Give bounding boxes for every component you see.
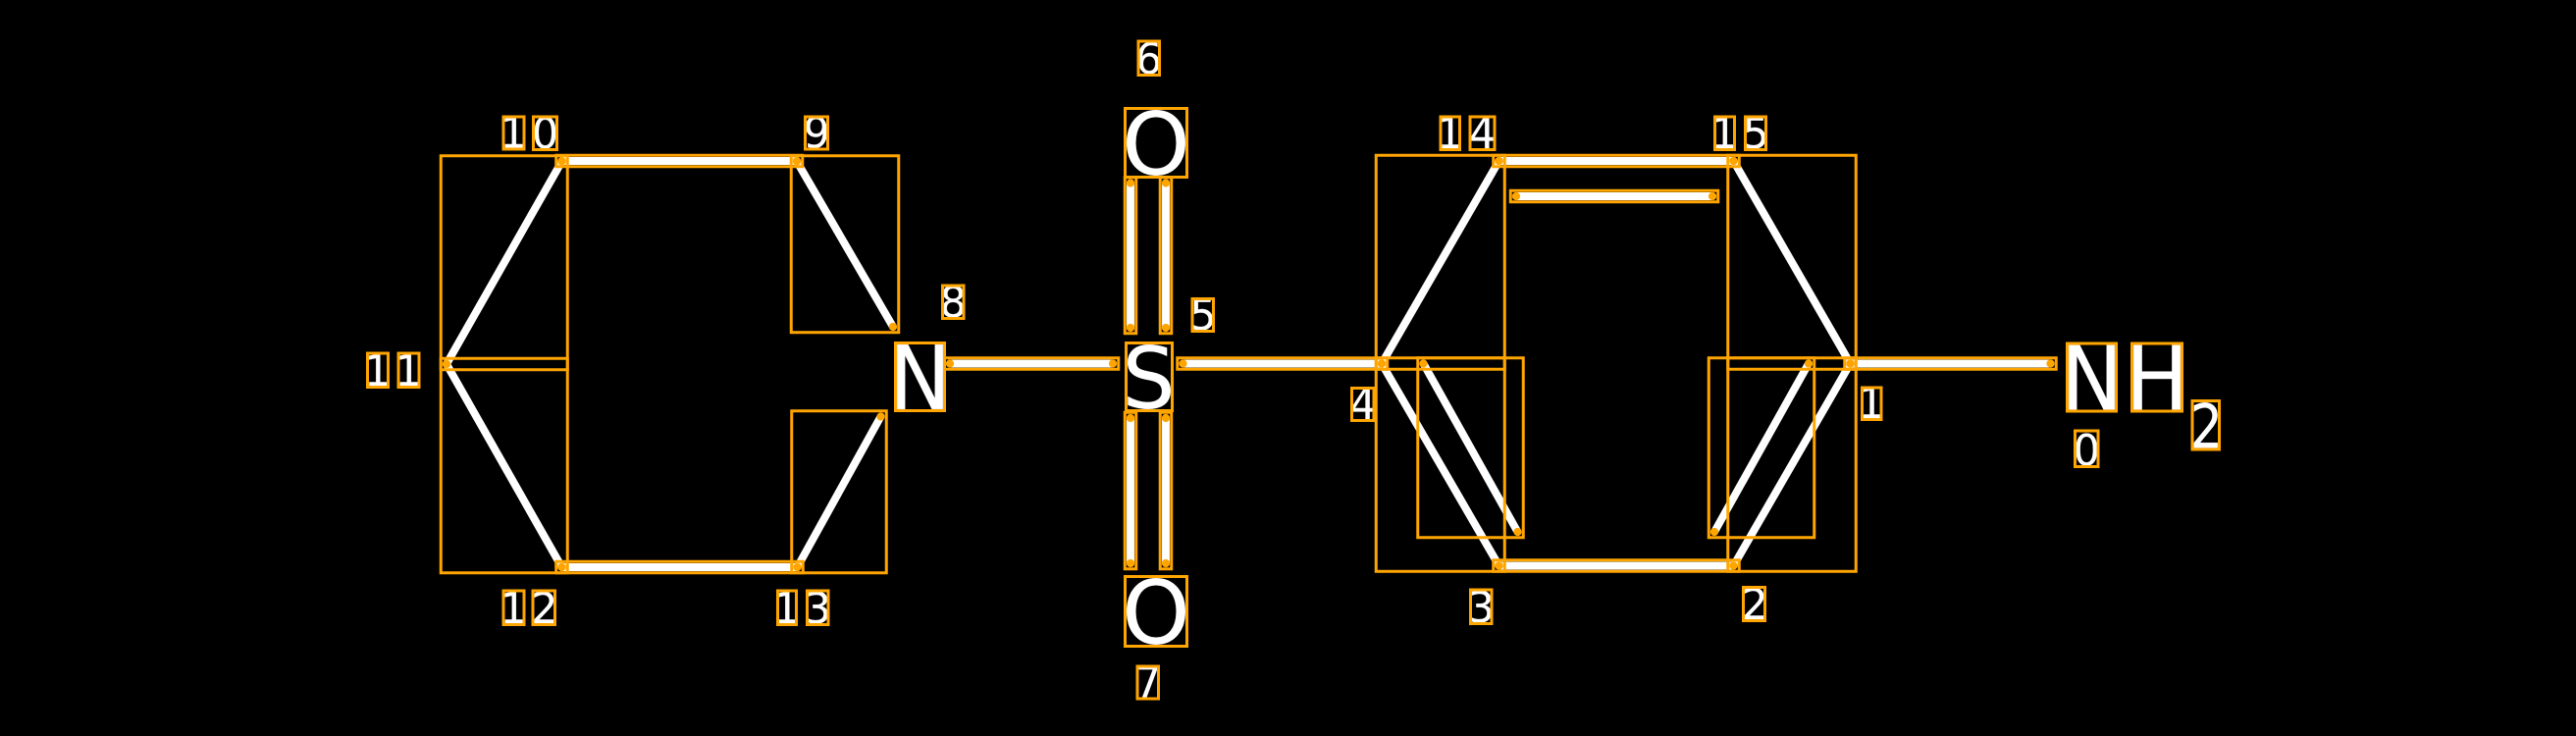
atom O7 glyph O xyxy=(1126,577,1187,647)
bond S5=O6 line b xyxy=(1162,184,1170,329)
atom N0 glyph H xyxy=(2132,343,2182,411)
bond S5=O7 line a xyxy=(1127,418,1134,563)
bond C1-N0 annotation box and endpoint dots xyxy=(1845,358,2057,370)
atom S5 glyph S xyxy=(1127,343,1173,411)
bond N8-S5 xyxy=(950,360,1113,368)
bond C13-N8 xyxy=(798,417,881,568)
bond C3=C4 inner line annotation box and endpoint dots xyxy=(1418,358,1524,538)
label 13 digit 3 xyxy=(808,591,829,625)
label 11 digit 1a xyxy=(368,353,389,388)
bond S5=O7 line b annotation box and endpoint dots xyxy=(1160,412,1172,569)
bond C12-C13 xyxy=(562,563,798,571)
label 10 digit 0 xyxy=(534,117,557,150)
bond S5=O6 line a xyxy=(1127,184,1134,329)
label 9 digit 9 xyxy=(806,116,828,149)
bond C10-C11 xyxy=(447,162,562,365)
atom N0 glyph N xyxy=(2068,343,2117,411)
label 0 digit 0 xyxy=(2076,431,2099,467)
bond C2-C3 annotation box and endpoint dots xyxy=(1494,560,1740,572)
bond C1=C2 inner line annotation box and endpoint dots xyxy=(1709,358,1814,538)
label 1 digit 1 xyxy=(1863,387,1882,419)
bond C10-C9 annotation box and endpoint dots xyxy=(556,155,803,167)
bond S5-C4 annotation box and endpoint dots xyxy=(1178,358,1388,370)
bond C13-N8 annotation box and endpoint dots xyxy=(792,411,887,573)
bond C11-C12 annotation box and endpoint dots xyxy=(441,358,567,573)
atom N8 glyph N xyxy=(896,343,945,411)
bond C12-C13 annotation box and endpoint dots xyxy=(556,561,804,573)
bond C3-C4 annotation box and endpoint dots xyxy=(1376,358,1504,572)
bond C11-C12 xyxy=(447,364,562,567)
label 5 digit 5 xyxy=(1192,298,1214,331)
bond C9-N8 annotation box and endpoint dots xyxy=(791,156,899,333)
bond S5=O7 line a annotation box and endpoint dots xyxy=(1125,412,1136,569)
bond C3-C4 xyxy=(1382,364,1499,566)
bond C1-N0 xyxy=(1851,360,2051,368)
bond C15-C1 xyxy=(1734,161,1851,364)
label 2 digit 2 xyxy=(1744,588,1765,621)
bond S5=O6 line a annotation box and endpoint dots xyxy=(1125,178,1136,334)
label 6 digit 6 xyxy=(1138,41,1160,76)
label 7 digit 7 xyxy=(1137,666,1159,699)
label 15 digit 5 xyxy=(1746,117,1766,150)
bond C2-C3 xyxy=(1499,562,1734,570)
bond S5=O7 line b xyxy=(1162,418,1170,563)
bond C14-C15 xyxy=(1499,157,1734,165)
bond C3=C4 inner line xyxy=(1424,364,1518,533)
label 12 digit 1 xyxy=(503,591,524,625)
bond C10-C9 xyxy=(562,157,798,165)
label 4 digit 4 xyxy=(1351,388,1374,420)
bond C14=C15 inner line annotation box and endpoint dots xyxy=(1510,190,1718,202)
label 14 digit 4 xyxy=(1470,117,1495,150)
bond C4-C14 annotation box and endpoint dots xyxy=(1376,155,1504,369)
bond C10-C11 annotation box and endpoint dots xyxy=(441,156,567,370)
bond C14-C15 annotation box and endpoint dots xyxy=(1494,155,1740,167)
label 15 digit 1 xyxy=(1715,117,1735,150)
label 3 digit 3 xyxy=(1471,590,1493,624)
bond C1-C2 xyxy=(1734,364,1851,566)
bond S5-C4 xyxy=(1183,360,1383,368)
bond C15-C1 annotation box and endpoint dots xyxy=(1728,155,1857,369)
atom N0 glyph subscript 2 xyxy=(2192,401,2220,450)
bond C14=C15 inner line xyxy=(1516,192,1712,200)
label 11 digit 1b xyxy=(398,353,419,388)
bond S5=O6 line b annotation box and endpoint dots xyxy=(1160,178,1172,334)
bond C9-N8 xyxy=(797,162,893,328)
label 14 digit 1 xyxy=(1441,117,1460,150)
label 12 digit 2 xyxy=(533,591,555,625)
atom O6 glyph O xyxy=(1126,109,1187,178)
bond C1-C2 annotation box and endpoint dots xyxy=(1728,358,1857,572)
label 8 digit 8 xyxy=(943,286,965,319)
bond N8-S5 annotation box and endpoint dots xyxy=(944,358,1119,370)
bond C4-C14 xyxy=(1382,161,1499,364)
bond C1=C2 inner line xyxy=(1714,364,1809,533)
label 13 digit 1 xyxy=(778,591,797,625)
label 10 digit 1 xyxy=(503,117,524,149)
